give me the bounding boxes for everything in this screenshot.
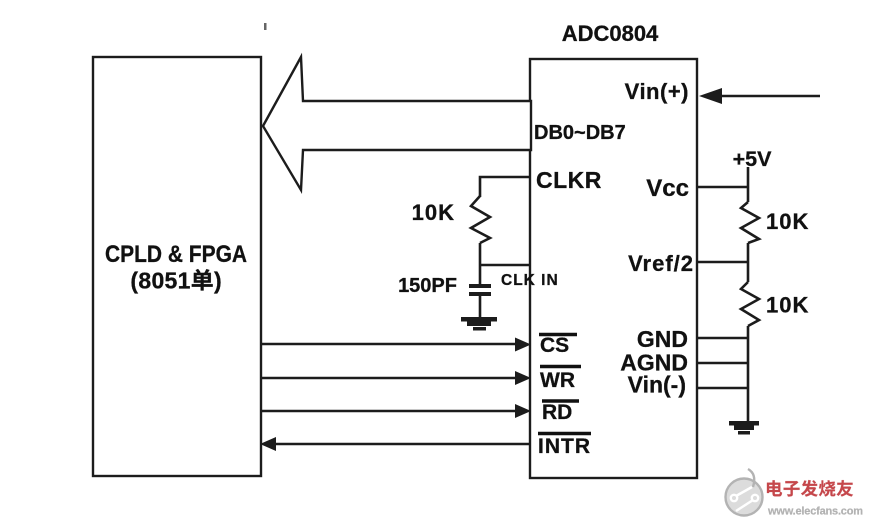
wire GND pin <box>697 337 748 339</box>
svg-text:(8051: (8051 <box>130 268 190 294</box>
svg-text:Vref/2: Vref/2 <box>628 251 694 276</box>
watermark logo circle <box>726 469 763 516</box>
wire INTR control line <box>273 443 530 446</box>
svg-text:Vcc: Vcc <box>646 175 689 202</box>
svg-text:CLK IN: CLK IN <box>501 272 559 289</box>
svg-text:Vin(+): Vin(+) <box>625 79 689 104</box>
wire cap to ground <box>479 296 482 318</box>
svg-text:CPLD & FPGA: CPLD & FPGA <box>105 241 247 268</box>
wire RD control line <box>261 410 518 413</box>
wire R3 to ground <box>747 326 750 421</box>
wire Vin(+) input <box>712 95 820 98</box>
watermark text 电子发烧友 <box>767 480 782 496</box>
svg-text:10K: 10K <box>766 293 809 318</box>
resistor R2 10K <box>741 202 759 243</box>
IC U1 ADC0804 <box>530 59 697 478</box>
svg-text:WR: WR <box>540 369 575 392</box>
wire Vcc pin <box>697 186 748 189</box>
svg-text:10K: 10K <box>412 200 455 225</box>
svg-text:CLKR: CLKR <box>536 167 602 193</box>
svg-text:ADC0804: ADC0804 <box>562 21 659 46</box>
svg-text:150PF: 150PF <box>398 275 457 297</box>
resistor R1 10K <box>471 196 490 243</box>
svg-text:INTR: INTR <box>538 435 591 458</box>
bus arrow DB0~DB7 (hollow arrow from ADC to CPLD) <box>263 57 531 190</box>
svg-text:CS: CS <box>540 334 569 357</box>
wire Vref/2 pin <box>697 261 748 264</box>
svg-text:Vin(-): Vin(-) <box>628 372 686 398</box>
svg-text:RD: RD <box>542 401 572 424</box>
wire WR control line <box>261 377 518 380</box>
wire +5V rail <box>747 167 750 202</box>
wire AGND pin <box>697 362 748 364</box>
svg-text:+5V: +5V <box>733 147 773 171</box>
wire Vin(-) pin <box>697 387 748 389</box>
wire CLK IN pin <box>480 264 530 267</box>
wire resistor to cap / CLK IN <box>479 243 482 284</box>
speck artifact <box>264 23 267 30</box>
svg-text:www.elecfans.com: www.elecfans.com <box>767 506 863 518</box>
ground G2 <box>729 421 759 426</box>
wire CLKR to resistor <box>480 177 530 197</box>
wire CS control line <box>261 343 518 346</box>
svg-text:): ) <box>214 268 222 294</box>
IC U2 CPLD & FPGA <box>93 57 261 476</box>
resistor R3 10K <box>741 282 759 326</box>
svg-text:GND: GND <box>637 326 688 352</box>
wire R2 to Vref2 node <box>747 243 750 282</box>
ground G1 <box>461 317 497 322</box>
svg-text:10K: 10K <box>766 209 809 234</box>
capacitor C1 150PF <box>469 284 491 288</box>
svg-text:DB0~DB7: DB0~DB7 <box>534 122 626 144</box>
